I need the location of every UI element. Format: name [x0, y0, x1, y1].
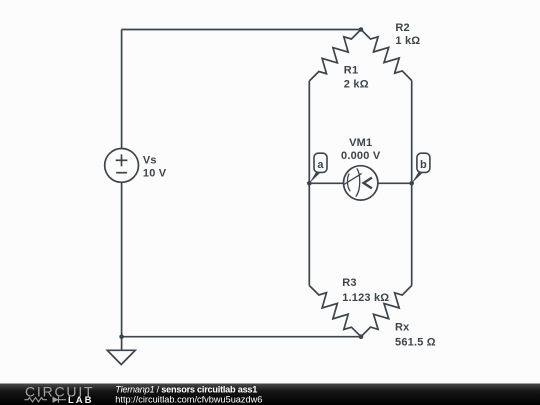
resistor Rx	[361, 286, 412, 337]
wire bridge right vertical	[411, 81, 413, 286]
wire bridge left vertical	[308, 81, 310, 286]
voltmeter VM1 interior	[344, 168, 372, 196]
node A junction dot	[307, 181, 312, 186]
svg-text:0.000 V: 0.000 V	[341, 150, 381, 162]
svg-text:LAB: LAB	[68, 395, 94, 405]
svg-text:2 kΩ: 2 kΩ	[344, 79, 369, 91]
logo resistor squiggle and diode arrow	[25, 397, 67, 403]
voltmeter VM1 circle	[344, 166, 378, 200]
svg-text:R2: R2	[395, 22, 409, 34]
svg-text:Vs: Vs	[143, 155, 157, 167]
top junction dot	[359, 27, 364, 32]
svg-text:1 kΩ: 1 kΩ	[395, 35, 420, 47]
svg-text:R3: R3	[342, 277, 356, 289]
svg-text:b: b	[420, 159, 427, 171]
wire left lower	[121, 182, 123, 337]
svg-text:a: a	[317, 159, 324, 171]
ground stem	[121, 337, 123, 351]
svg-text:http://circuitlab.com/cfvbwu5u: http://circuitlab.com/cfvbwu5uazdw6	[115, 394, 262, 404]
node b flag	[412, 153, 430, 183]
wire bottom rail	[122, 336, 361, 338]
svg-text:R1: R1	[344, 65, 358, 77]
resistor R3	[309, 286, 361, 337]
voltage source Vs circle	[105, 149, 139, 183]
svg-text:Rx: Rx	[395, 322, 410, 334]
wire left vertical upper	[121, 30, 123, 149]
wire meter left	[309, 182, 343, 184]
bottom junction dot	[359, 334, 364, 339]
svg-text:VM1: VM1	[349, 137, 372, 149]
resistor R1	[309, 30, 361, 82]
svg-text:561.5 Ω: 561.5 Ω	[395, 337, 436, 349]
node B junction dot	[409, 181, 414, 186]
ground junction dot	[119, 334, 124, 339]
wire top rail	[122, 29, 361, 31]
Vs minus sign	[116, 172, 127, 174]
svg-text:10 V: 10 V	[143, 167, 167, 179]
node a flag	[309, 153, 327, 183]
svg-text:Tiernanp1 / sensors circuitlab: Tiernanp1 / sensors circuitlab ass1	[115, 385, 257, 395]
Vs plus sign	[116, 159, 128, 161]
resistor R2	[361, 30, 412, 81]
ground triangle	[107, 350, 135, 364]
svg-text:1.123 kΩ: 1.123 kΩ	[342, 292, 389, 304]
wire meter right	[378, 182, 412, 184]
